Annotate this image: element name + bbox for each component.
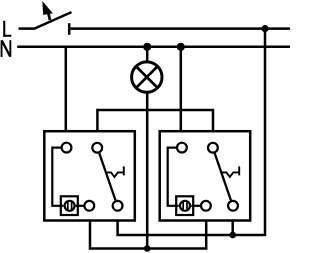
S2 terminal bottom-middle bbox=[201, 201, 211, 211]
label N bbox=[2, 40, 11, 57]
S1 switch blade bbox=[99, 153, 115, 200]
S1 terminal top-right bbox=[92, 143, 102, 153]
S2 terminal bottom-right bbox=[228, 201, 238, 211]
label L bbox=[3, 21, 11, 37]
switch S0 fixed contact tick bbox=[68, 23, 71, 35]
S1 terminal bottom-middle bbox=[84, 201, 94, 211]
wire L feed bbox=[19, 27, 35, 30]
node L-branch junction bbox=[261, 25, 268, 32]
node N-switch2 junction bbox=[177, 43, 185, 51]
S1 terminal top-left bbox=[62, 143, 72, 153]
wire S2 bottom-right drop bbox=[231, 221, 234, 236]
wire N bus bbox=[17, 46, 290, 49]
wire L bus bbox=[69, 27, 290, 30]
switch box S2 bbox=[160, 131, 251, 220]
wire lamp return (line B) linking bottom-middle terminals bbox=[90, 221, 206, 249]
S2 latch spring bbox=[221, 166, 239, 177]
lamp E1 bbox=[132, 62, 162, 92]
wire N to S2 top-left terminal bbox=[180, 47, 183, 131]
S2 glow lamp frame bbox=[176, 196, 193, 215]
node lamp-return junction bbox=[144, 245, 151, 252]
S2 glow lamp to BM lead bbox=[191, 205, 200, 207]
S2 switch blade bbox=[215, 153, 231, 200]
actuation arrow bbox=[42, 1, 53, 20]
wire L branch to bottom-right terminals (line A) bbox=[118, 29, 265, 235]
wire N to S1 top-left terminal bbox=[65, 47, 68, 131]
wire lamp to node B bbox=[146, 93, 149, 249]
wire N to lamp bbox=[146, 47, 149, 61]
wire interconnect S1-TR to S2-TR bbox=[97, 110, 213, 131]
S2 terminal top-right bbox=[208, 143, 218, 153]
S1 glow lamp bbox=[65, 201, 75, 211]
switch S0 blade bbox=[34, 12, 72, 29]
S1 glow lamp to BM lead bbox=[76, 205, 85, 207]
S1 internal wire TL to glow lamp bbox=[52, 148, 63, 206]
S2 terminal top-left bbox=[177, 143, 187, 153]
node N-lamp junction bbox=[143, 43, 151, 51]
node S2-BR junction bbox=[229, 232, 236, 239]
S1 latch spring bbox=[106, 166, 124, 177]
S1 terminal bottom-right bbox=[113, 201, 123, 211]
S2 glow lamp bbox=[180, 201, 190, 211]
S1 glow lamp frame bbox=[61, 196, 78, 215]
S2 internal wire TL to glow lamp bbox=[168, 148, 179, 206]
switch box S1 bbox=[44, 131, 135, 220]
